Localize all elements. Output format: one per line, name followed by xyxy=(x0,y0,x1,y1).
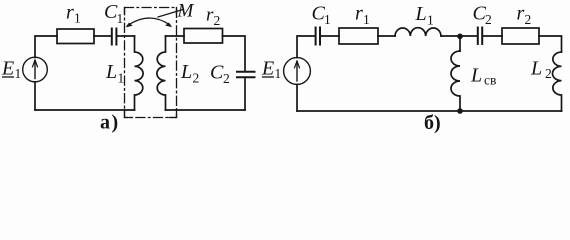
resistor r2 (b) xyxy=(502,28,539,44)
svg-text:r: r xyxy=(355,3,363,25)
svg-text:2: 2 xyxy=(545,66,552,81)
svg-text:M: M xyxy=(177,1,195,22)
wire loop1 top: source to r1 xyxy=(35,36,57,58)
svg-text:1: 1 xyxy=(74,11,81,26)
svg-text:L: L xyxy=(180,61,192,83)
middle branch wire top xyxy=(459,36,461,51)
coupling box (dash-dot) xyxy=(125,8,177,118)
wire C2 to r2 (b) xyxy=(483,35,502,37)
wire loop1 bottom xyxy=(35,109,135,111)
capacitor C1 (b) xyxy=(315,28,317,45)
svg-text:1: 1 xyxy=(15,66,22,81)
wire source bottom xyxy=(34,82,36,110)
resistor r1 xyxy=(57,29,94,44)
wire r2 to right corner xyxy=(223,36,246,71)
svg-text:2: 2 xyxy=(525,12,532,27)
svg-text:2: 2 xyxy=(193,71,200,86)
svg-text:1: 1 xyxy=(363,12,370,27)
capacitor C1 xyxy=(111,29,113,45)
source E1 arrow xyxy=(34,61,36,79)
wire r2 to right branch (b) xyxy=(539,36,562,52)
wire source bottom (b) xyxy=(296,84,298,111)
wire r1 to L1 (b) xyxy=(378,35,395,37)
wire bottom (b) xyxy=(297,110,562,112)
wire C1 to L1 xyxy=(117,35,134,37)
svg-text:Е: Е xyxy=(1,58,14,80)
svg-text:L: L xyxy=(470,65,482,87)
inductor L2 (right coil of transformer) xyxy=(157,36,166,110)
svg-text:б): б) xyxy=(424,112,441,134)
wire loop2 bottom xyxy=(166,109,246,111)
wire C2 to bottom xyxy=(244,78,246,110)
coupling box corner reinforcement xyxy=(125,8,177,118)
inductor L2 (b, right branch) xyxy=(553,52,562,111)
svg-text:L: L xyxy=(105,61,117,83)
mutual inductance arrow xyxy=(127,18,170,26)
inductor Lsv (coupling) xyxy=(451,51,460,111)
wire L2 top to r2 xyxy=(166,35,185,37)
resistor r2 xyxy=(184,29,223,44)
svg-text:r: r xyxy=(517,3,525,25)
node bottom dot xyxy=(457,108,463,114)
svg-text:L: L xyxy=(530,58,542,80)
svg-text:1: 1 xyxy=(324,12,331,27)
inductor L1 (b, horizontal) xyxy=(395,28,441,36)
wire left branch top xyxy=(297,36,315,58)
svg-text:2: 2 xyxy=(214,13,221,28)
source E1 circle xyxy=(23,57,48,82)
capacitor C2 (horizontal plates) xyxy=(237,71,255,73)
source E1 circle (b) xyxy=(284,58,311,85)
svg-text:св: св xyxy=(484,73,496,88)
svg-text:2: 2 xyxy=(223,71,230,86)
svg-text:C: C xyxy=(210,62,224,84)
svg-text:1: 1 xyxy=(427,13,434,28)
svg-text:Е: Е xyxy=(261,58,274,80)
svg-text:1: 1 xyxy=(275,66,282,81)
svg-text:L: L xyxy=(415,3,427,25)
inductor L1 (left coil of transformer) xyxy=(135,36,144,110)
svg-text:1: 1 xyxy=(118,71,125,86)
node top dot xyxy=(457,34,463,40)
capacitor C2 (b) xyxy=(477,28,479,45)
wire r1 to C1 xyxy=(94,35,111,37)
wire C1 to r1 (b) xyxy=(321,35,339,37)
svg-text:2: 2 xyxy=(485,12,492,27)
svg-text:r: r xyxy=(66,2,74,24)
svg-text:1: 1 xyxy=(117,11,124,26)
resistor r1 (b) xyxy=(339,28,378,44)
wire L1 to C2 through node (b) xyxy=(441,35,477,37)
svg-text:а): а) xyxy=(100,112,120,134)
source E1 arrow (b) xyxy=(296,62,298,82)
